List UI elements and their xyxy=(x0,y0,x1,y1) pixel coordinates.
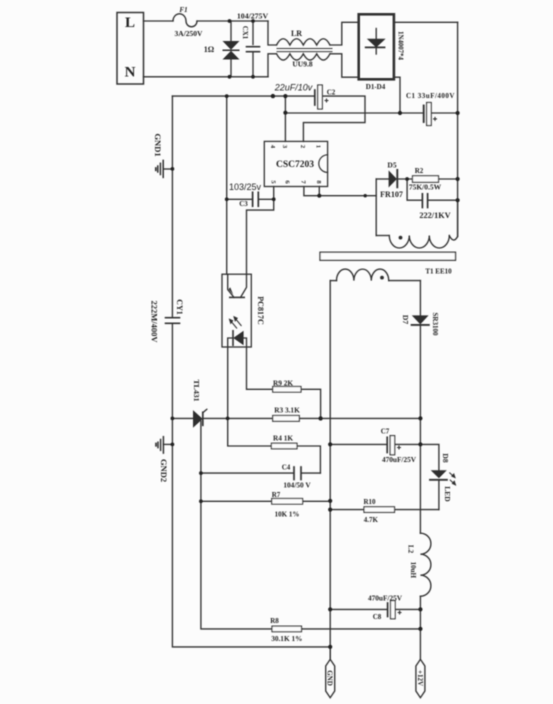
svg-text:D1-D4: D1-D4 xyxy=(366,83,386,91)
svg-text:D8: D8 xyxy=(441,453,450,462)
svg-text:CX1: CX1 xyxy=(241,26,248,40)
svg-text:22uF/10v: 22uF/10v xyxy=(274,83,313,93)
svg-text:+12V: +12V xyxy=(416,670,424,686)
svg-text:R4 1K: R4 1K xyxy=(273,433,293,442)
svg-text:470uF/25V: 470uF/25V xyxy=(382,455,417,464)
svg-text:104/275V: 104/275V xyxy=(237,12,269,21)
svg-text:F1: F1 xyxy=(179,6,187,14)
svg-text:222M/400V: 222M/400V xyxy=(150,300,160,343)
svg-text:N: N xyxy=(125,65,136,81)
svg-text:10K 1%: 10K 1% xyxy=(275,510,300,518)
svg-text:4.7K: 4.7K xyxy=(364,516,379,524)
svg-text:R9 2K: R9 2K xyxy=(273,378,293,387)
svg-text:R7: R7 xyxy=(272,491,281,499)
svg-text:C3: C3 xyxy=(239,200,248,208)
svg-text:R10: R10 xyxy=(363,498,376,506)
svg-text:2: 2 xyxy=(299,145,306,148)
svg-text:R2: R2 xyxy=(415,167,424,175)
svg-text:1: 1 xyxy=(314,145,321,148)
svg-text:CSC7203: CSC7203 xyxy=(276,160,314,170)
svg-text:D7: D7 xyxy=(401,315,410,324)
svg-text:LED: LED xyxy=(443,486,452,502)
svg-text:10uH: 10uH xyxy=(409,562,417,579)
svg-text:103/25v: 103/25v xyxy=(229,182,262,192)
svg-text:30.1K 1%: 30.1K 1% xyxy=(271,634,302,643)
svg-text:R8: R8 xyxy=(270,617,279,625)
svg-text:104/50 V: 104/50 V xyxy=(283,480,311,489)
svg-text:75K/0.5W: 75K/0.5W xyxy=(409,182,442,191)
svg-text:SR3100: SR3100 xyxy=(431,313,439,336)
svg-text:1Ω: 1Ω xyxy=(204,45,215,54)
svg-text:R3 3.1K: R3 3.1K xyxy=(274,405,300,414)
svg-text:L: L xyxy=(125,15,135,31)
svg-text:C7: C7 xyxy=(381,428,390,436)
svg-text:C1 33uF/400V: C1 33uF/400V xyxy=(406,92,455,100)
svg-text:1N4007*4: 1N4007*4 xyxy=(397,31,404,60)
svg-text:FR107: FR107 xyxy=(380,190,403,199)
svg-text:GND: GND xyxy=(326,670,334,686)
svg-text:222/1KV: 222/1KV xyxy=(419,211,450,220)
svg-text:TL431: TL431 xyxy=(192,379,201,401)
svg-text:UU9.8: UU9.8 xyxy=(292,60,312,69)
svg-text:C2: C2 xyxy=(327,89,336,97)
svg-text:LR: LR xyxy=(291,29,302,38)
svg-text:L2: L2 xyxy=(407,545,415,554)
svg-text:T1 EE10: T1 EE10 xyxy=(425,267,452,275)
svg-text:CY1: CY1 xyxy=(175,299,184,315)
svg-text:3A/250V: 3A/250V xyxy=(175,29,204,38)
svg-text:C8: C8 xyxy=(373,613,382,621)
svg-text:PC817C: PC817C xyxy=(256,296,265,325)
svg-text:D5: D5 xyxy=(387,160,396,169)
svg-text:GND2: GND2 xyxy=(159,459,169,482)
svg-text:470uF/25V: 470uF/25V xyxy=(368,594,403,603)
svg-text:C4: C4 xyxy=(282,463,291,471)
svg-text:GND1: GND1 xyxy=(153,133,163,156)
